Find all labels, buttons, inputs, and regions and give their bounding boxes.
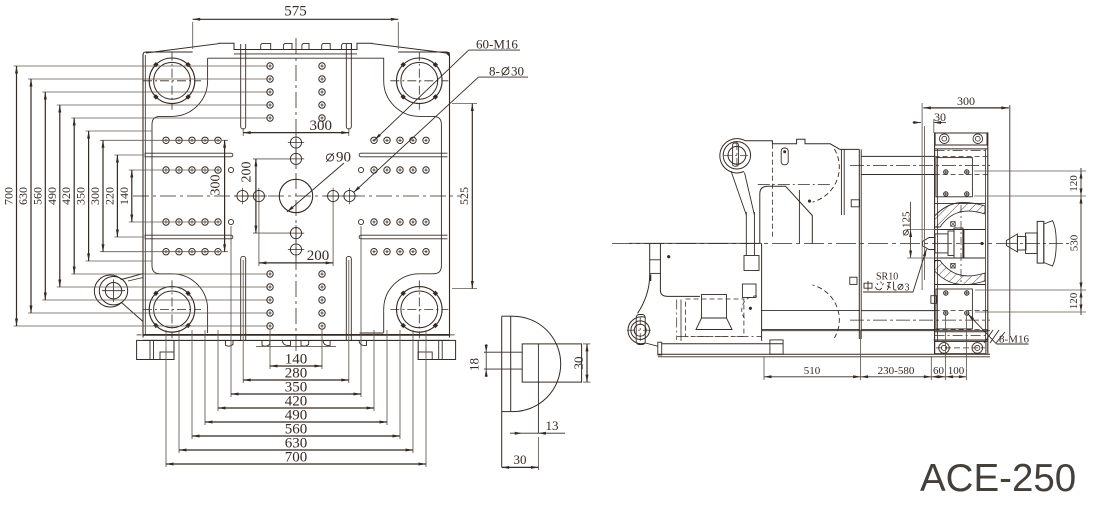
vertical T-slots (241, 44, 246, 129)
top beam of moving platen (746, 139, 841, 149)
ejector bracket boss at lower left (94, 274, 143, 322)
dimension 525 right side (452, 103, 477, 105)
svg-text:630: 630 (16, 187, 30, 205)
bed top line under mold area (762, 330, 990, 332)
platen mid dashed centerline vertical (960, 205, 962, 282)
left mounting foot (137, 340, 174, 359)
svg-text:490: 490 (45, 187, 59, 205)
main horizontal centerline (612, 243, 1003, 245)
serration break lines (984, 330, 993, 343)
svg-text:200: 200 (307, 248, 330, 264)
platen bottom edge lines (143, 334, 450, 336)
toggle clearance dashed arcs (813, 149, 840, 202)
svg-text:525: 525 (457, 187, 471, 205)
dimension 30 right view (913, 122, 921, 124)
moving platen body (858, 149, 860, 339)
center hole D90 (279, 179, 312, 212)
svg-text:200: 200 (240, 162, 255, 183)
horizontal T-slots (145, 153, 233, 157)
right mounting foot (418, 340, 455, 359)
clamp bolt squares (951, 222, 956, 227)
svg-text:700: 700 (2, 187, 16, 205)
svg-text:125: 125 (901, 211, 913, 228)
rail end post (770, 340, 783, 354)
svg-text:300: 300 (309, 118, 332, 134)
svg-text:60-M16: 60-M16 (476, 37, 518, 52)
mold half edge line (924, 126, 926, 280)
svg-text:560: 560 (30, 187, 44, 205)
dimension 18 detail (485, 344, 487, 377)
svg-text:230-580: 230-580 (878, 365, 915, 377)
svg-text:700: 700 (285, 450, 308, 466)
dimension 300 vertical left inner (222, 139, 228, 141)
right dimension column 120/530/120 (1080, 168, 1082, 315)
svg-text:120: 120 (1068, 175, 1080, 192)
dimension 13 detail (510, 432, 565, 434)
lower hatched wedge (935, 261, 985, 285)
svg-text:SR10: SR10 (876, 272, 898, 283)
dimension 300 between top slots (242, 128, 244, 136)
svg-text:30: 30 (934, 110, 946, 124)
injection carriage edge line (1009, 105, 1011, 335)
lug center marks (724, 154, 750, 156)
svg-text:13: 13 (546, 418, 559, 433)
hidden crosshead rectangle (686, 299, 744, 336)
bottom dimension chain extension lines (269, 330, 271, 369)
tie-bar holes (4 corner bosses) (149, 58, 195, 104)
toggle rear block (760, 186, 813, 243)
base rail left (662, 343, 783, 345)
toggle pivot dash line (758, 183, 830, 185)
svg-text:575: 575 (284, 4, 307, 20)
dimension 200 horizontal inner (258, 202, 260, 266)
stationary platen top cap (935, 133, 987, 145)
svg-text:420: 420 (59, 187, 73, 205)
dimension 30 detail right (583, 343, 591, 345)
extension lines for right column (974, 170, 1086, 172)
face contour around tie-bar bosses (152, 58, 441, 333)
svg-text:120: 120 (1068, 292, 1080, 309)
label D90 with leader (326, 154, 333, 161)
svg-text:30: 30 (514, 452, 527, 467)
dimension 300 right view (923, 107, 1008, 109)
center lines of platen (295, 38, 297, 352)
svg-text:100: 100 (948, 365, 965, 377)
svg-text:300: 300 (209, 175, 224, 196)
locating ring blocks (935, 234, 948, 253)
svg-text:30: 30 (511, 64, 524, 79)
left dimension chain extension lines (14, 65, 269, 67)
platen top profile with clamp tabs (146, 43, 447, 53)
detail view: locating ring cross-section (501, 316, 503, 467)
svg-text:30: 30 (571, 357, 586, 370)
ejector pedestal (702, 295, 727, 319)
hidden edge at feet (137, 334, 143, 336)
crosshead blocks (744, 256, 759, 271)
stationary platen bottom band (935, 331, 988, 333)
svg-text:140: 140 (117, 187, 131, 205)
bottom dimension chain 140/280/350/420/490/560/630/700 (270, 365, 322, 367)
dimension D125 locating ring (907, 229, 940, 231)
left dimension chain 700/630/560/490/420/350/300/220/140 (16, 66, 18, 326)
svg-text:300: 300 (88, 187, 102, 205)
clips on platen faces (851, 200, 859, 207)
toggle top lug (723, 142, 750, 169)
tie bar bottom between platens (861, 310, 934, 312)
detail boss rectangle (522, 344, 581, 382)
bottom dimension line 510 / 230-580 / 60 / 100 (764, 376, 966, 378)
lower mold mounting plate (936, 289, 972, 329)
svg-text:18: 18 (467, 358, 482, 371)
top edge clamp bumps (261, 43, 271, 49)
toggle bottom lug (631, 321, 650, 340)
slot on moving platen top (781, 148, 788, 165)
svg-text:60: 60 (933, 365, 945, 377)
mold cavity boundary lines (935, 202, 986, 204)
small dashed arc at crosshead (742, 296, 757, 320)
hidden tie bar in stationary platen (935, 155, 988, 157)
toggle arm from top lug (731, 171, 746, 215)
machine base under moving platen (761, 244, 763, 341)
svg-text:ACE-250: ACE-250 (920, 457, 1076, 500)
M16 hole grid - side blocks (215, 137, 221, 143)
8 mounting holes D30 on axes (253, 190, 264, 201)
bottom clamp slot notches (262, 340, 270, 346)
dimension 200 vertical inner (253, 158, 290, 160)
dimension 30 detail bottom (537, 437, 539, 470)
svg-text:350: 350 (74, 187, 88, 205)
svg-text:8-: 8- (489, 64, 500, 79)
platen inner edge line left (144, 55, 146, 335)
extension lines bottom dims (763, 357, 765, 380)
4 plain holes (228, 167, 233, 172)
reference dots (808, 200, 811, 203)
upper mold mounting plate (936, 158, 972, 197)
stationary platen slab (934, 132, 936, 353)
svg-text:300: 300 (957, 94, 975, 108)
corner chamfer mark (445, 52, 450, 57)
hidden tie-bar line in moving platen (771, 144, 773, 238)
svg-text:220: 220 (102, 187, 116, 205)
detail notch lines (484, 351, 522, 353)
tie bar top between platens (861, 155, 934, 157)
M16 hole grid - top and bottom blocks (267, 115, 273, 121)
injection nozzle (1006, 234, 1017, 252)
sprue bushing nozzle tip SR10 (923, 238, 936, 250)
svg-text:510: 510 (804, 365, 821, 377)
platen outer outline (143, 52, 450, 338)
stationary platen foot (934, 339, 989, 341)
svg-text:530: 530 (1069, 234, 1081, 251)
dimension 575 top (192, 22, 194, 49)
toggle housing lower left (629, 242, 762, 244)
